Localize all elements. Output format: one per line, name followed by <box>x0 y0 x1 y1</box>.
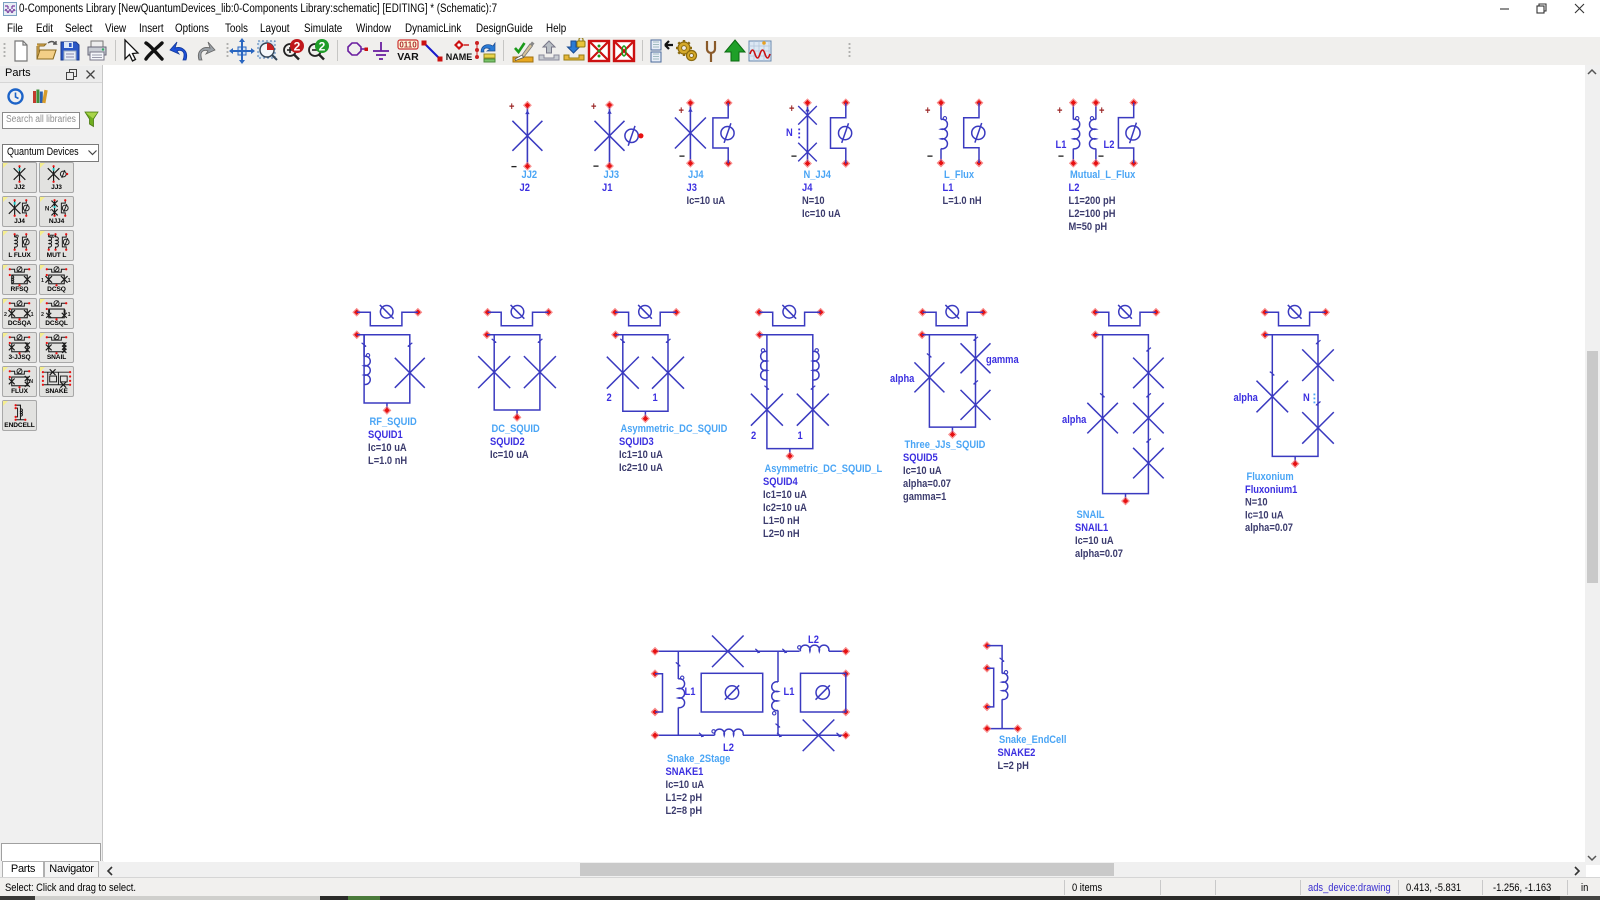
svg-text:Ic=10 uA: Ic=10 uA <box>1075 535 1114 547</box>
svg-text:1: 1 <box>68 312 71 318</box>
svg-text:alpha: alpha <box>890 373 915 385</box>
svg-text:1: 1 <box>41 278 44 284</box>
svg-text:L1: L1 <box>943 182 954 194</box>
svg-text:Ic=10 uA: Ic=10 uA <box>666 779 705 791</box>
svg-text:Ic2=10 uA: Ic2=10 uA <box>619 462 663 474</box>
svg-text:1: 1 <box>798 430 803 442</box>
svg-text:2: 2 <box>41 312 44 318</box>
svg-text:gamma: gamma <box>986 354 1019 366</box>
svg-text:Ic2=10 uA: Ic2=10 uA <box>763 502 807 514</box>
svg-text:JJ4: JJ4 <box>688 169 704 181</box>
svg-text:alpha=0.07: alpha=0.07 <box>1245 522 1293 534</box>
svg-text:Asymmetric_DC_SQUID_L: Asymmetric_DC_SQUID_L <box>765 463 883 475</box>
svg-text:Ic1=10 uA: Ic1=10 uA <box>763 489 807 501</box>
svg-text:J4: J4 <box>802 182 813 194</box>
svg-text:Fluxonium: Fluxonium <box>1247 471 1294 483</box>
svg-text:J2: J2 <box>520 182 531 194</box>
svg-text:L1: L1 <box>1056 139 1067 151</box>
svg-text:Fluxonium1: Fluxonium1 <box>1245 484 1298 496</box>
svg-text:0110: 0110 <box>399 41 417 50</box>
svg-text:N: N <box>29 379 33 385</box>
svg-text:L2=8 pH: L2=8 pH <box>666 805 703 817</box>
svg-text:Ic=10 uA: Ic=10 uA <box>802 208 841 220</box>
svg-text:Ic=10 uA: Ic=10 uA <box>490 449 529 461</box>
svg-text:+: + <box>925 105 930 117</box>
svg-text:−: − <box>593 161 599 174</box>
svg-text:−: − <box>511 161 517 174</box>
svg-text:M=50 pH: M=50 pH <box>1069 221 1108 233</box>
svg-text:Mutual_L_Flux: Mutual_L_Flux <box>1070 169 1136 181</box>
svg-text:alpha=0.07: alpha=0.07 <box>1075 548 1123 560</box>
svg-text:Ic=10 uA: Ic=10 uA <box>687 195 726 207</box>
svg-text:N: N <box>786 127 793 139</box>
svg-text:+: + <box>591 101 596 113</box>
svg-text:RF_SQUID: RF_SQUID <box>370 416 417 428</box>
svg-text:SQUID4: SQUID4 <box>763 476 798 488</box>
svg-text:+: + <box>679 105 684 117</box>
svg-text:JJ3: JJ3 <box>604 169 620 181</box>
svg-text:−: − <box>679 150 685 163</box>
svg-text:SQUID5: SQUID5 <box>903 452 938 464</box>
svg-text:1: 1 <box>68 278 71 284</box>
svg-text:Ic=10 uA: Ic=10 uA <box>1245 510 1284 522</box>
svg-text:L_Flux: L_Flux <box>944 169 974 181</box>
svg-text:−: − <box>1098 150 1104 163</box>
svg-text:Snake_EndCell: Snake_EndCell <box>999 734 1067 746</box>
svg-text:N=10: N=10 <box>802 195 825 207</box>
svg-text:Snake_2Stage: Snake_2Stage <box>667 753 731 765</box>
svg-text:J1: J1 <box>602 182 613 194</box>
svg-text:SNAKE2: SNAKE2 <box>998 747 1036 759</box>
svg-text:L2=0 nH: L2=0 nH <box>763 528 800 540</box>
svg-text:+: + <box>509 101 514 113</box>
svg-text:L1=200 pH: L1=200 pH <box>1069 195 1116 207</box>
svg-text:L1=0 nH: L1=0 nH <box>763 515 800 527</box>
svg-text:N: N <box>1303 392 1310 404</box>
svg-text:1: 1 <box>653 392 658 404</box>
svg-text:SNAIL1: SNAIL1 <box>1075 522 1108 534</box>
svg-text:SQUID3: SQUID3 <box>619 436 654 448</box>
svg-text:Ic=10 uA: Ic=10 uA <box>903 465 942 477</box>
svg-text:2: 2 <box>4 312 7 318</box>
svg-text:2: 2 <box>751 430 756 442</box>
svg-text:NAME: NAME <box>446 52 472 62</box>
svg-text:L1: L1 <box>685 686 696 698</box>
svg-text:DC_SQUID: DC_SQUID <box>492 423 540 435</box>
svg-text:Ic1=10 uA: Ic1=10 uA <box>619 449 663 461</box>
svg-text:gamma=1: gamma=1 <box>903 491 947 503</box>
svg-text:alpha: alpha <box>1234 392 1259 404</box>
svg-text:Asymmetric_DC_SQUID: Asymmetric_DC_SQUID <box>621 423 728 435</box>
svg-text:VAR: VAR <box>397 51 419 63</box>
svg-text:N_JJ4: N_JJ4 <box>804 169 832 181</box>
svg-text:alpha=0.07: alpha=0.07 <box>903 478 951 490</box>
svg-text:L2=100 pH: L2=100 pH <box>1069 208 1116 220</box>
svg-text:L1=2 pH: L1=2 pH <box>666 792 703 804</box>
svg-text:SQUID2: SQUID2 <box>490 436 525 448</box>
svg-text:L=2 pH: L=2 pH <box>998 760 1029 772</box>
svg-text:N:: N: <box>45 205 52 212</box>
svg-text:Three_JJs_SQUID: Three_JJs_SQUID <box>905 439 986 451</box>
svg-text:+: + <box>1057 105 1062 117</box>
svg-text:L2: L2 <box>808 634 819 646</box>
svg-text:L=1.0 nH: L=1.0 nH <box>368 455 407 467</box>
svg-text:SNAKE1: SNAKE1 <box>666 766 704 778</box>
svg-text:2: 2 <box>607 392 612 404</box>
svg-text:−: − <box>927 150 933 163</box>
svg-text:2: 2 <box>294 40 301 54</box>
svg-text:J3: J3 <box>687 182 698 194</box>
svg-text:−: − <box>1058 150 1064 163</box>
svg-text:+: + <box>1099 105 1104 117</box>
svg-text:2: 2 <box>319 40 326 54</box>
svg-text:L=1.0 nH: L=1.0 nH <box>943 195 982 207</box>
svg-text:SNAIL: SNAIL <box>1077 509 1105 521</box>
svg-text:L1: L1 <box>784 686 795 698</box>
svg-text:Ic=10 uA: Ic=10 uA <box>368 442 407 454</box>
svg-text:N=10: N=10 <box>1245 497 1268 509</box>
svg-text:−: − <box>791 151 797 164</box>
svg-text:L2: L2 <box>1104 139 1115 151</box>
svg-text:L2: L2 <box>1069 182 1080 194</box>
svg-text:SQUID1: SQUID1 <box>368 429 403 441</box>
svg-text:+: + <box>789 103 794 115</box>
svg-text:JJ2: JJ2 <box>522 169 538 181</box>
svg-text:alpha: alpha <box>1062 414 1087 426</box>
svg-text:1: 1 <box>31 312 34 318</box>
